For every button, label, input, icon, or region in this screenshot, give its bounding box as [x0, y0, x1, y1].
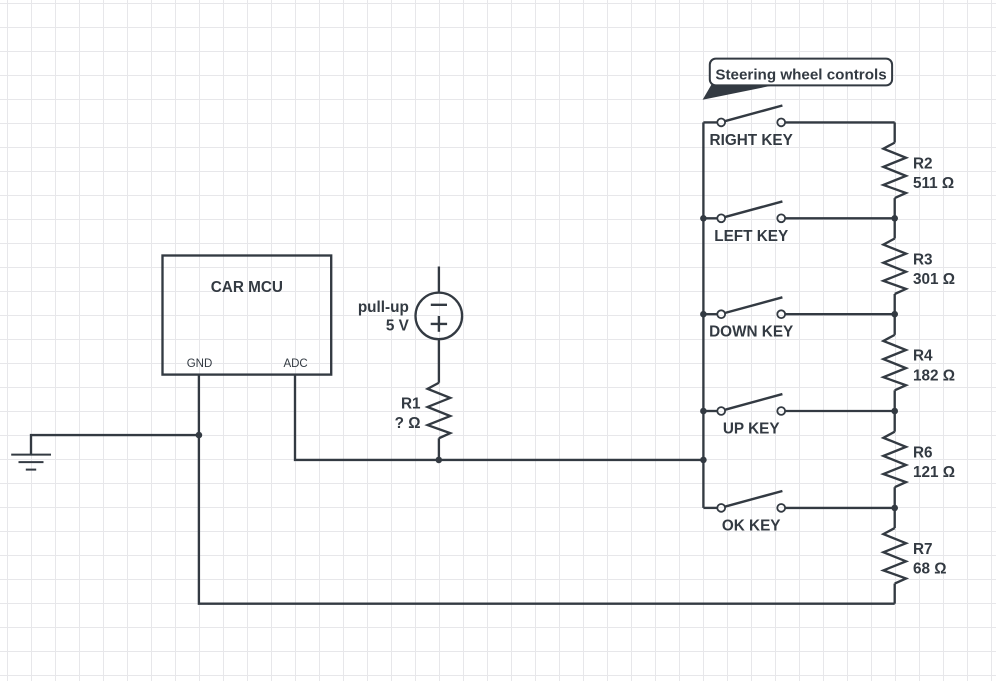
svg-text:301 Ω: 301 Ω [913, 271, 955, 288]
svg-text:5 V: 5 V [386, 317, 410, 334]
svg-text:DOWN KEY: DOWN KEY [709, 324, 793, 341]
svg-text:pull-up: pull-up [358, 299, 409, 316]
svg-text:511 Ω: 511 Ω [913, 175, 954, 192]
svg-text:Steering wheel controls: Steering wheel controls [715, 66, 886, 83]
svg-text:CAR MCU: CAR MCU [211, 279, 283, 296]
svg-text:R1: R1 [401, 395, 421, 412]
svg-text:R4: R4 [913, 348, 933, 365]
svg-text:? Ω: ? Ω [395, 415, 421, 432]
svg-text:121 Ω: 121 Ω [913, 464, 955, 481]
svg-text:R3: R3 [913, 251, 933, 268]
svg-text:ADC: ADC [283, 358, 307, 370]
svg-text:68 Ω: 68 Ω [913, 561, 947, 578]
svg-text:182 Ω: 182 Ω [913, 367, 955, 384]
svg-text:OK KEY: OK KEY [722, 517, 781, 534]
svg-text:UP KEY: UP KEY [723, 421, 780, 438]
svg-text:R2: R2 [913, 155, 933, 172]
svg-text:GND: GND [187, 358, 213, 370]
svg-text:R6: R6 [913, 444, 933, 461]
svg-text:R7: R7 [913, 541, 933, 558]
svg-text:RIGHT KEY: RIGHT KEY [710, 132, 793, 149]
svg-text:LEFT KEY: LEFT KEY [714, 228, 788, 245]
